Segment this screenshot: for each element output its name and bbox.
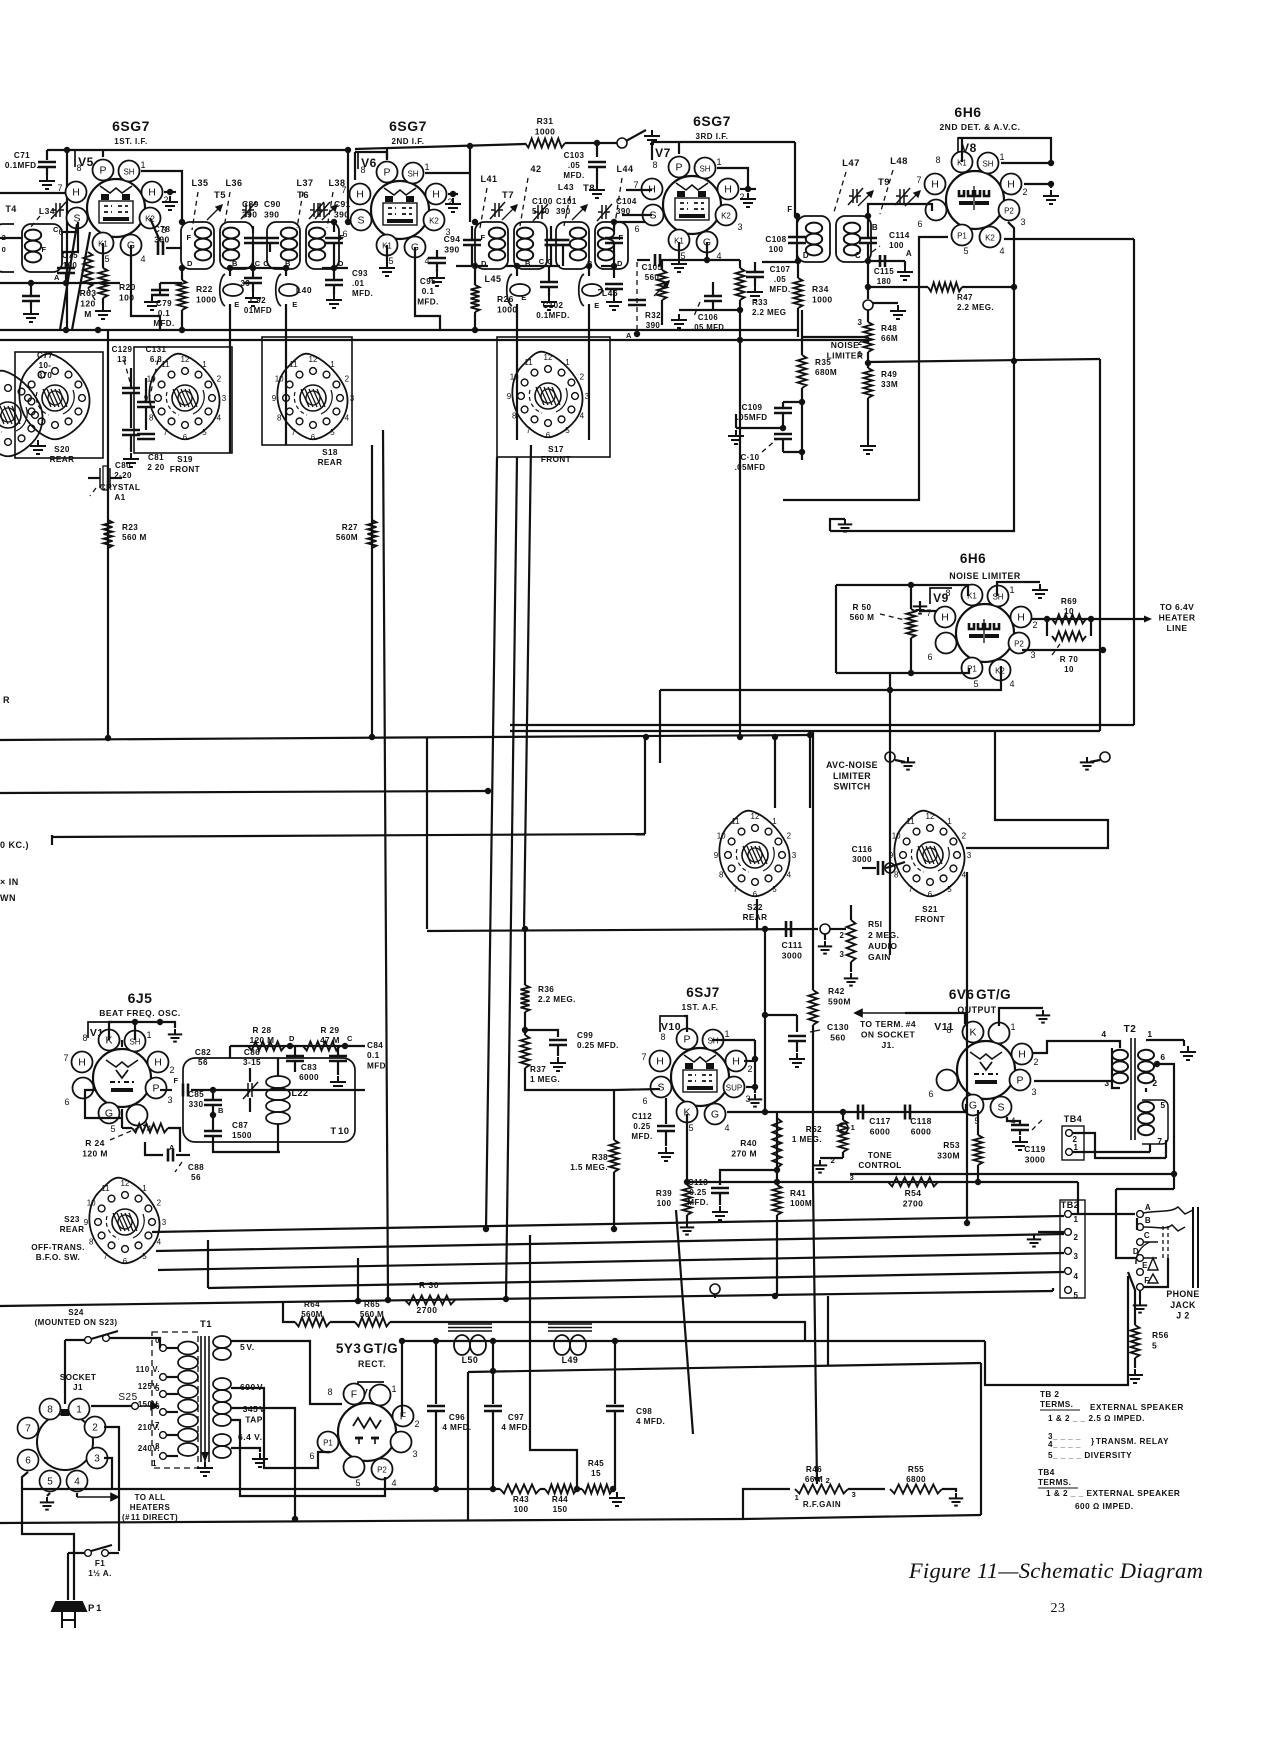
svg-text:R46: R46 bbox=[806, 1465, 822, 1474]
wire hook bbox=[51, 835, 53, 845]
junction bbox=[594, 140, 600, 146]
wire R22 down bbox=[181, 310, 183, 330]
label C C bbox=[255, 259, 270, 268]
label 345V TAP bbox=[243, 1404, 266, 1425]
label T8 bbox=[583, 183, 595, 194]
wire C113 link bbox=[720, 1170, 777, 1185]
label L34 bbox=[39, 206, 55, 216]
wire J1-5 gnd stub bbox=[47, 1493, 50, 1496]
svg-text:C111: C111 bbox=[782, 940, 803, 950]
junction bbox=[63, 280, 69, 286]
wire C99 low bbox=[557, 1045, 559, 1056]
capacitor C114 bbox=[859, 238, 877, 243]
svg-text:0: 0 bbox=[2, 245, 7, 254]
tube V11 6V6 bbox=[928, 1022, 1038, 1127]
label C95 0.1MFD bbox=[417, 277, 439, 306]
wire V10 S left bbox=[614, 1089, 660, 1090]
svg-text:1: 1 bbox=[795, 1493, 800, 1502]
label TB2 TERMS bbox=[1040, 1390, 1073, 1409]
label tone 1 bbox=[851, 1123, 856, 1132]
socket J1 pin 1 bbox=[69, 1399, 90, 1420]
wire C87 low bbox=[213, 1136, 280, 1152]
svg-text:4: 4 bbox=[962, 871, 967, 880]
wire tone gnd link bbox=[820, 1157, 843, 1159]
svg-text:H: H bbox=[941, 612, 949, 624]
socket J1 pin 3 bbox=[87, 1448, 108, 1469]
label V11 bbox=[934, 1021, 954, 1033]
svg-text:12: 12 bbox=[181, 355, 190, 364]
wire C91 top bbox=[333, 222, 335, 232]
wire V7 H7 left bbox=[626, 189, 652, 191]
svg-text:C100: C100 bbox=[532, 197, 553, 206]
coil L48 bbox=[844, 223, 860, 256]
wire T2 prim bot bbox=[1112, 1081, 1120, 1088]
svg-text:10: 10 bbox=[275, 375, 284, 384]
svg-text:LIMITER: LIMITER bbox=[833, 771, 871, 781]
label C94 390 bbox=[444, 234, 461, 255]
wire L39 top bbox=[229, 268, 231, 276]
wire R56 low bbox=[1134, 1358, 1136, 1368]
capacitor C88 bbox=[168, 1149, 173, 1162]
svg-text:1½ A.: 1½ A. bbox=[88, 1569, 112, 1578]
svg-text:P1: P1 bbox=[323, 1439, 333, 1448]
svg-text:10-: 10- bbox=[39, 361, 52, 370]
svg-text:J 2: J 2 bbox=[1176, 1311, 1189, 1321]
label L42 bbox=[530, 164, 541, 174]
wire C106 low bbox=[712, 301, 714, 310]
svg-text:2.2 MEG: 2.2 MEG bbox=[752, 308, 786, 317]
rotary switch S23 rear bbox=[84, 1178, 167, 1266]
svg-text:H: H bbox=[656, 1056, 664, 1068]
capacitor C89 plate bbox=[244, 238, 262, 243]
pointer R70 bbox=[1052, 644, 1060, 655]
svg-text:11: 11 bbox=[906, 817, 915, 826]
wire het2 ext bbox=[510, 730, 660, 732]
svg-text:C99: C99 bbox=[577, 1031, 593, 1040]
label S19 FRONT bbox=[170, 455, 200, 474]
wire jack feed bbox=[1173, 1174, 1175, 1189]
junction bbox=[95, 327, 101, 333]
transformer T10 box bbox=[183, 1058, 355, 1142]
label C78 390 bbox=[154, 224, 171, 245]
svg-text:4 MFD.: 4 MFD. bbox=[636, 1417, 665, 1426]
label T6 bbox=[297, 190, 309, 201]
svg-text:T1: T1 bbox=[200, 1319, 212, 1330]
wire V12 top bus bbox=[109, 1021, 160, 1023]
label C116 3000 bbox=[852, 845, 873, 864]
svg-text:2: 2 bbox=[92, 1423, 98, 1434]
wire C86 up bbox=[249, 1068, 251, 1082]
svg-text:TB4: TB4 bbox=[1064, 1114, 1083, 1124]
svg-text:SH: SH bbox=[407, 170, 418, 179]
label R39 100 bbox=[656, 1189, 672, 1208]
fuse F1 b bbox=[102, 1550, 109, 1557]
label T7 B bbox=[525, 259, 531, 268]
svg-text:560 M: 560 M bbox=[122, 533, 147, 542]
resistor R28 bbox=[248, 1042, 285, 1051]
terminal TB4-1 bbox=[1066, 1149, 1073, 1156]
svg-text:7: 7 bbox=[908, 885, 913, 894]
jack arm C bbox=[1136, 1242, 1158, 1264]
svg-text:L36: L36 bbox=[225, 178, 242, 188]
svg-text:390: 390 bbox=[646, 321, 661, 330]
capacitor C98 bbox=[606, 1406, 624, 1411]
ground C79 bbox=[144, 296, 160, 310]
capacitor C80 plate bbox=[122, 430, 140, 435]
junction bbox=[433, 1338, 439, 1344]
label tap 6 bbox=[155, 1402, 160, 1411]
svg-text:C104: C104 bbox=[616, 197, 637, 206]
tuning arrow T6 bbox=[322, 205, 337, 220]
resistor R32 bbox=[658, 270, 667, 300]
wire T7 D stub bbox=[456, 265, 488, 267]
wire V10 G right bbox=[727, 1111, 765, 1113]
capacitor C131 bbox=[137, 402, 155, 407]
label T7 D bbox=[481, 259, 487, 268]
wire V8 K2 right bbox=[1004, 238, 1134, 240]
wire V8 top bbox=[958, 138, 1051, 160]
label C80 2-20 bbox=[114, 461, 132, 480]
svg-text:8: 8 bbox=[149, 414, 154, 423]
junction bbox=[745, 186, 751, 192]
svg-text:2: 2 bbox=[163, 195, 168, 205]
wire det out bbox=[867, 261, 869, 299]
svg-text:2: 2 bbox=[1022, 187, 1027, 197]
junction bbox=[975, 1179, 981, 1185]
svg-text:7: 7 bbox=[633, 180, 638, 190]
svg-text:1000: 1000 bbox=[812, 295, 833, 305]
svg-text:C118: C118 bbox=[910, 1116, 931, 1126]
svg-text:G: G bbox=[969, 1100, 977, 1112]
wire C104 low bbox=[613, 243, 615, 266]
svg-text:42: 42 bbox=[530, 164, 541, 174]
ground C84 bbox=[330, 1076, 346, 1090]
wire V6 top bus to R31 bbox=[355, 144, 525, 149]
wire K2 bus left bbox=[660, 689, 890, 691]
svg-text:2: 2 bbox=[747, 1064, 752, 1074]
tube V5 6SG7 1st IF bbox=[57, 160, 168, 265]
wire R70 right lead bbox=[1090, 619, 1092, 636]
svg-text:3: 3 bbox=[350, 394, 355, 403]
switch S24 contact a bbox=[85, 1337, 92, 1344]
label R28 120M bbox=[250, 1026, 275, 1045]
T1 core arrow bbox=[201, 1452, 209, 1462]
svg-text:9: 9 bbox=[889, 851, 894, 860]
label node A2 bbox=[906, 249, 912, 258]
wire L45 end bbox=[516, 430, 518, 440]
junction bbox=[799, 449, 805, 455]
wire L46 top bbox=[588, 266, 590, 276]
wire J1-6 to plug bbox=[22, 1472, 74, 1600]
label A node bbox=[169, 1143, 175, 1152]
svg-text:5: 5 bbox=[47, 1477, 53, 1488]
wire vert 660 bbox=[659, 690, 661, 763]
wire C89 top bbox=[252, 226, 254, 233]
coil L44 bbox=[598, 228, 614, 261]
svg-text:× IN: × IN bbox=[0, 877, 19, 887]
svg-text:1: 1 bbox=[1010, 1022, 1015, 1032]
wire S24 right bbox=[109, 1338, 160, 1348]
svg-text:L41: L41 bbox=[480, 174, 497, 184]
svg-text:560 M: 560 M bbox=[850, 613, 875, 622]
svg-text:R20: R20 bbox=[119, 282, 136, 292]
coil T2 secondary 1 bbox=[1138, 1050, 1154, 1083]
wire heater stub left bbox=[0, 192, 67, 194]
svg-text:AVC-NOISE: AVC-NOISE bbox=[826, 760, 878, 770]
wire 690V to P2 bbox=[231, 1420, 385, 1496]
terminal block TB2 bbox=[1060, 1200, 1085, 1298]
resistor R69 bbox=[1052, 615, 1086, 624]
label L50 bbox=[462, 1355, 479, 1365]
junction bbox=[840, 1109, 846, 1115]
svg-text:10: 10 bbox=[87, 1199, 96, 1208]
wire C131 low bbox=[145, 407, 147, 430]
label 6SJ7 bbox=[686, 985, 720, 1000]
wire to TB2-1 bbox=[1077, 1182, 1079, 1214]
junction C115 bus bbox=[865, 284, 871, 290]
svg-text:C112: C112 bbox=[632, 1112, 652, 1121]
label 2nd det AVC bbox=[939, 122, 1020, 132]
svg-text:5: 5 bbox=[202, 428, 207, 437]
junction bbox=[369, 734, 375, 740]
resistor R23 bbox=[104, 520, 113, 548]
junction R36 bus bbox=[522, 926, 528, 932]
junction T8 D bbox=[611, 263, 617, 269]
label TRANSM RELAY bbox=[1091, 1437, 1169, 1446]
arrowhead heater bbox=[1144, 616, 1152, 623]
rotary switch S18 rear bbox=[272, 354, 355, 442]
label T9 D bbox=[803, 251, 809, 260]
label box V14 bbox=[358, 1382, 384, 1398]
jack contact tri D bbox=[1143, 1258, 1158, 1270]
svg-text:3: 3 bbox=[1030, 650, 1035, 660]
svg-text:15: 15 bbox=[591, 1469, 601, 1478]
wire V12 ring bbox=[85, 1090, 122, 1118]
label box V8 bbox=[958, 138, 980, 154]
wire to R51 bbox=[830, 928, 846, 930]
svg-text:P: P bbox=[99, 165, 106, 177]
svg-text:E: E bbox=[1142, 1261, 1148, 1270]
svg-text:100M: 100M bbox=[790, 1199, 812, 1208]
pointer C119 bbox=[1032, 1120, 1042, 1130]
wire gnd link bbox=[830, 519, 845, 531]
wire C130 low bbox=[796, 1041, 798, 1052]
svg-text:C: C bbox=[1144, 1231, 1150, 1240]
wire right vert bus bbox=[1099, 359, 1101, 731]
svg-text:R53: R53 bbox=[943, 1140, 960, 1150]
svg-text:SUP: SUP bbox=[726, 1084, 742, 1093]
wire R52 top bbox=[842, 1112, 844, 1120]
label TB4 TERMS bbox=[1038, 1468, 1071, 1487]
junction bbox=[1048, 160, 1054, 166]
wire R42 to RF gain tap bbox=[813, 1182, 817, 1484]
svg-text:C131: C131 bbox=[146, 345, 167, 354]
resistor R20 bbox=[99, 268, 108, 298]
wire T4 C out bbox=[62, 231, 78, 233]
ground V9 SH bbox=[1032, 584, 1048, 598]
label L48 bbox=[890, 156, 908, 167]
label R51 2 bbox=[840, 931, 845, 940]
ground C80 bbox=[123, 453, 139, 467]
coil L41 bbox=[489, 228, 505, 261]
svg-text:330M: 330M bbox=[937, 1151, 960, 1161]
tube V14 5Y3 bbox=[309, 1384, 419, 1489]
junction bbox=[1171, 1171, 1177, 1177]
rotary switch S20 rear bbox=[19, 354, 89, 440]
coil L43 bbox=[570, 228, 586, 261]
svg-text:P2: P2 bbox=[1004, 207, 1014, 216]
svg-text:2: 2 bbox=[157, 1199, 162, 1208]
wire T2 prim top bbox=[1113, 1041, 1120, 1048]
terminal TB4-2 bbox=[1066, 1130, 1073, 1137]
capacitor C78 bbox=[158, 241, 163, 255]
resistor R24 bbox=[132, 1124, 168, 1133]
wire L46 E down bbox=[588, 304, 590, 430]
label R69 10 bbox=[1061, 597, 1077, 616]
label R29 47M bbox=[320, 1026, 340, 1045]
svg-text:6: 6 bbox=[123, 1257, 128, 1266]
coil T2 secondary 2 bbox=[1138, 1102, 1154, 1135]
coil L37 bbox=[281, 228, 297, 261]
wire V6 pin2 bbox=[448, 193, 458, 195]
svg-text:R31: R31 bbox=[537, 116, 554, 126]
svg-text:MFD.: MFD. bbox=[687, 1198, 708, 1207]
capacitor C92 bbox=[244, 278, 262, 283]
pointer R24 bbox=[110, 1125, 145, 1140]
svg-text:HEATERS: HEATERS bbox=[130, 1503, 171, 1512]
svg-text:H: H bbox=[356, 189, 364, 201]
svg-text:0.1MFD.: 0.1MFD. bbox=[5, 161, 39, 170]
svg-text:2700: 2700 bbox=[903, 1199, 924, 1209]
wire C71 to ground bbox=[46, 167, 48, 175]
wire V10 H2 bbox=[744, 1060, 755, 1062]
wire C102 top bbox=[548, 266, 550, 282]
terminal mid bbox=[710, 1284, 720, 1294]
label C79 0.1MFD bbox=[153, 299, 174, 328]
svg-text:7: 7 bbox=[341, 185, 346, 195]
wire R52 low bbox=[842, 1152, 844, 1158]
wire T1 tap 240V. bbox=[166, 1455, 178, 1457]
svg-text:10: 10 bbox=[1064, 665, 1074, 674]
IF transformer T6 secondary box bbox=[306, 222, 339, 269]
label C101 390 bbox=[556, 197, 577, 216]
wire T7 F feed bbox=[469, 146, 471, 222]
label C115 180 bbox=[874, 267, 894, 286]
arrow S25 bbox=[140, 1403, 158, 1410]
tuning arrow T7 bbox=[502, 205, 517, 220]
label 1st AF bbox=[682, 1003, 719, 1012]
wire C84 low bbox=[337, 1061, 339, 1075]
wire V7 pin8 up bbox=[678, 142, 680, 154]
svg-text:R49: R49 bbox=[881, 370, 897, 379]
svg-text:100: 100 bbox=[119, 293, 134, 303]
capacitor C119 bbox=[1011, 1125, 1029, 1130]
svg-text:6: 6 bbox=[1160, 1052, 1165, 1062]
svg-text:Figure 11—Schematic Diagram: Figure 11—Schematic Diagram bbox=[908, 1558, 1203, 1583]
label TB2 4 bbox=[1074, 1272, 1079, 1281]
wire C107 low bbox=[754, 277, 756, 286]
choke L50 bbox=[448, 1324, 492, 1355]
svg-text:1: 1 bbox=[851, 1123, 856, 1132]
coil L22 bbox=[266, 1076, 290, 1124]
label 6.4V bbox=[238, 1432, 262, 1442]
wire bottom bus bbox=[0, 1291, 1053, 1306]
terminal gnd2 bbox=[1100, 752, 1110, 762]
wire R48 top lead bbox=[867, 310, 869, 322]
svg-text:HEATER: HEATER bbox=[1159, 613, 1196, 623]
svg-text:8: 8 bbox=[945, 588, 950, 598]
svg-text:C103: C103 bbox=[564, 151, 585, 160]
wire R26 top bbox=[474, 266, 476, 285]
arrow heaters bbox=[77, 1494, 118, 1501]
svg-text:6H6: 6H6 bbox=[954, 104, 981, 120]
wire jack F bbox=[1143, 1258, 1168, 1287]
label 5V bbox=[240, 1342, 255, 1352]
wire L40 E down bbox=[285, 304, 287, 440]
label L47 bbox=[842, 158, 860, 169]
svg-text:C: C bbox=[855, 251, 861, 260]
svg-text:4: 4 bbox=[1074, 1272, 1079, 1281]
svg-text:9: 9 bbox=[714, 851, 719, 860]
wire C88 right bbox=[176, 1154, 190, 1156]
svg-text:C93: C93 bbox=[352, 269, 368, 278]
label P1 bbox=[88, 1603, 102, 1614]
svg-text:MFD.: MFD. bbox=[352, 289, 373, 298]
wire C98 low bbox=[614, 1412, 616, 1489]
label R43 100 bbox=[513, 1495, 529, 1514]
pointer L41 bbox=[480, 188, 487, 228]
svg-text:F: F bbox=[787, 205, 792, 214]
pointer C129 bbox=[124, 360, 130, 382]
label R46 3 bbox=[852, 1490, 857, 1499]
svg-text:1 MEG.: 1 MEG. bbox=[530, 1075, 560, 1084]
svg-text:TAP: TAP bbox=[245, 1415, 263, 1425]
svg-text:10: 10 bbox=[510, 373, 519, 382]
svg-text:560 M: 560 M bbox=[360, 1310, 384, 1319]
svg-text:5_ _ _ _ DIVERSITY: 5_ _ _ _ DIVERSITY bbox=[1048, 1451, 1132, 1460]
svg-text:T2: T2 bbox=[1124, 1024, 1137, 1035]
svg-text:1: 1 bbox=[1009, 585, 1014, 595]
label R partial bbox=[3, 695, 10, 705]
capacitor C100 plate bbox=[545, 240, 558, 245]
svg-text:C106: C106 bbox=[698, 313, 719, 322]
capacitor C81 plate bbox=[137, 434, 155, 439]
ground R55 bbox=[949, 1493, 963, 1506]
svg-text:R42: R42 bbox=[828, 986, 845, 996]
label F1 bbox=[88, 1559, 112, 1578]
svg-text:3000: 3000 bbox=[782, 951, 803, 961]
tube V8 6H6 bbox=[916, 152, 1027, 257]
svg-text:1: 1 bbox=[772, 817, 777, 826]
pointer L46 bbox=[598, 288, 608, 290]
svg-text:JACK: JACK bbox=[1170, 1300, 1196, 1310]
ground T1 bbox=[197, 1462, 213, 1476]
label V10 bbox=[661, 1021, 681, 1033]
svg-text:5: 5 bbox=[947, 885, 952, 894]
svg-text:D: D bbox=[187, 259, 193, 268]
coil T1 6.4V bbox=[213, 1434, 231, 1458]
socket J1 pin 6 bbox=[18, 1450, 39, 1471]
label KC partial bbox=[0, 840, 29, 850]
label T2 5 bbox=[1160, 1100, 1165, 1110]
label R45 15 bbox=[588, 1459, 604, 1478]
wire R51 low bbox=[850, 962, 852, 972]
wire C75 low bbox=[65, 273, 67, 283]
svg-text:R26: R26 bbox=[497, 294, 514, 304]
resistor R41 bbox=[773, 1185, 782, 1215]
wire V6 SH right bbox=[425, 172, 470, 174]
wire C85 top bbox=[212, 1090, 214, 1100]
